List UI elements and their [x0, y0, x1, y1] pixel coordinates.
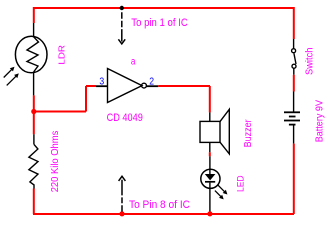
dashed arrow to pin 1	[118, 12, 125, 44]
wire inverter output horizontal	[158, 85, 210, 87]
svg-text:220 Kilo Ohms: 220 Kilo Ohms	[50, 131, 61, 193]
LED D1	[201, 156, 220, 212]
node junction bottom pin8	[119, 211, 124, 216]
wire bottom rail	[33, 213, 294, 215]
node junction top pin1	[120, 6, 124, 10]
wire battery bottom lead	[293, 125, 295, 144]
wire LDR top lead	[33, 23, 35, 37]
pin 3 label	[99, 77, 104, 88]
buzzer LS1	[200, 109, 229, 154]
switch S1	[292, 49, 296, 75]
svg-text:a: a	[131, 57, 136, 68]
wire output vertical red to buzzer	[209, 86, 211, 112]
svg-text:To Pin 8 of IC: To Pin 8 of IC	[129, 199, 190, 211]
LED light arrow 1	[218, 185, 228, 195]
wire buzzer bottom lead black	[209, 142, 211, 152]
label CD 4049	[107, 112, 143, 124]
wire inverter output pin lead black	[146, 85, 158, 87]
label LED	[236, 175, 246, 192]
wire right rail black to switch	[293, 39, 295, 49]
wire top rail	[33, 7, 294, 9]
label Switch	[305, 48, 316, 75]
svg-text:LED: LED	[236, 175, 246, 192]
wire inverter input pin lead black	[96, 85, 108, 87]
wire left rail red lower	[33, 189, 35, 215]
wire right rail red upper	[293, 7, 295, 39]
label Buzzer	[243, 119, 254, 148]
LDR light arrow 1	[4, 67, 15, 78]
wire left rail red mid	[33, 95, 35, 134]
wire right rail red mid	[293, 75, 295, 92]
label To pin 1 of IC	[131, 17, 188, 29]
wire left rail red upper	[33, 7, 35, 23]
resistor R1 220k zigzag	[29, 144, 38, 188]
svg-text:Buzzer: Buzzer	[243, 119, 254, 148]
dashed arrow to pin 8	[119, 176, 126, 211]
LDR light arrow 2	[7, 73, 19, 85]
wire LDR bottom lead	[33, 72, 35, 95]
wire red buzzer to LED	[209, 152, 211, 156]
LDR photoresistor	[15, 36, 47, 73]
wire inverter input stub red	[86, 85, 96, 87]
LED light arrow 2	[215, 191, 224, 200]
svg-text:CD 4049: CD 4049	[107, 112, 143, 124]
label LDR	[57, 45, 67, 65]
battery B1	[284, 112, 300, 124]
wire inverter input vertical	[85, 86, 87, 112]
label a	[131, 57, 136, 68]
svg-text:Battery 9V: Battery 9V	[315, 100, 326, 143]
pin 2 label	[149, 77, 154, 88]
wire resistor top lead black	[33, 134, 35, 144]
label Battery 9V	[315, 100, 326, 143]
label To Pin 8 of IC	[129, 199, 190, 211]
node junction to inverter input	[31, 109, 36, 114]
wire buzzer top lead black	[209, 112, 211, 121]
label 220 Kilo Ohms	[50, 131, 61, 193]
wire right rail red lower	[293, 144, 295, 214]
wire battery top lead	[293, 92, 295, 113]
wire inverter input horizontal	[34, 111, 86, 113]
node junction LED to bottom rail	[207, 211, 212, 216]
op-amp U1 inverter triangle	[108, 69, 143, 103]
svg-text:To pin 1 of IC: To pin 1 of IC	[131, 17, 188, 29]
svg-text:3: 3	[99, 77, 104, 88]
svg-text:Switch: Switch	[305, 48, 316, 75]
inverter output bubble	[142, 83, 147, 88]
svg-text:LDR: LDR	[57, 45, 67, 65]
